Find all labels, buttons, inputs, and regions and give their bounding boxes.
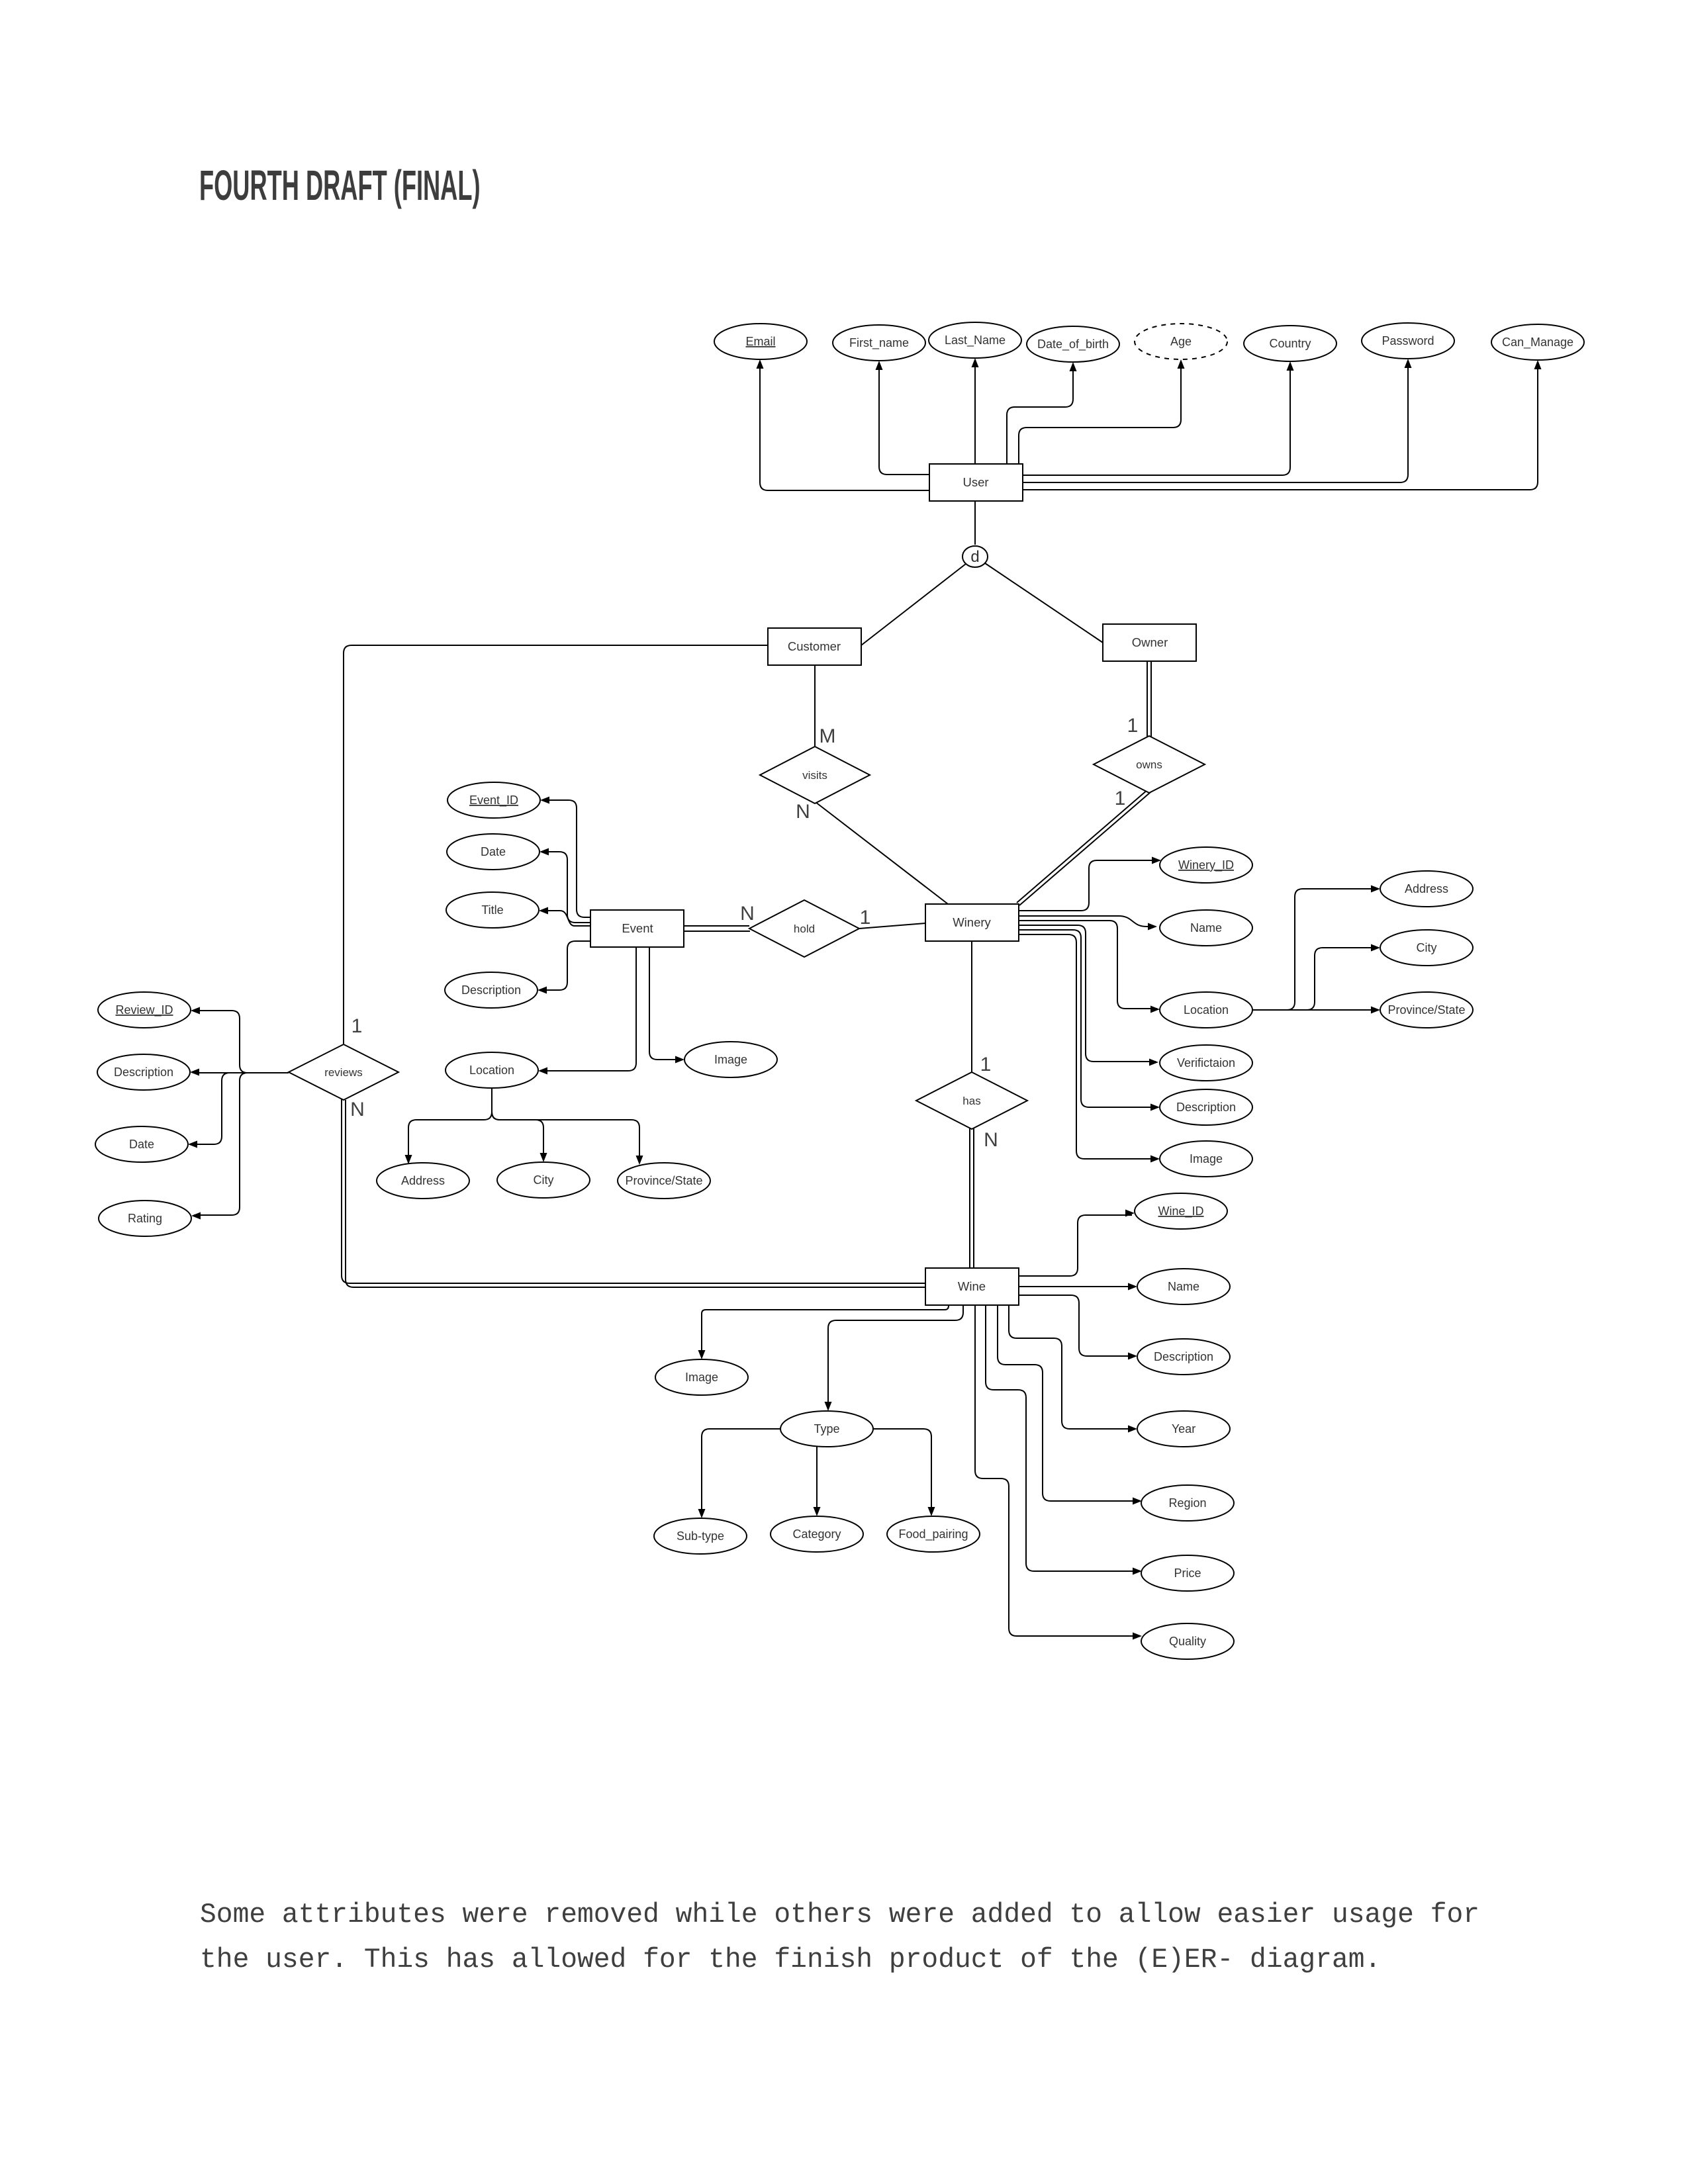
arrowhead Wine-Price bbox=[1133, 1568, 1142, 1575]
arrowhead Winery-Description bbox=[1150, 1104, 1160, 1111]
svg-text:1: 1 bbox=[352, 1015, 363, 1037]
svg-text:Description: Description bbox=[461, 983, 521, 997]
wire reviews-Rating bbox=[194, 1073, 289, 1215]
wire Wine-Name bbox=[1018, 1286, 1135, 1287]
wire Location-City bbox=[492, 1088, 543, 1158]
attribute ellipse WLocation bbox=[1160, 992, 1252, 1028]
attribute ellipse EDate bbox=[447, 834, 539, 870]
arrowhead User-First_name bbox=[876, 361, 883, 370]
wire User-Age bbox=[1019, 364, 1181, 464]
attribute ellipse Email bbox=[714, 324, 807, 359]
wire Winery-Verifictaion bbox=[1018, 925, 1156, 1062]
attribute ellipse Price bbox=[1141, 1555, 1234, 1591]
svg-text:Owner: Owner bbox=[1132, 635, 1168, 649]
attribute ellipse Verifictaion bbox=[1160, 1045, 1252, 1081]
svg-text:Image: Image bbox=[714, 1053, 747, 1066]
svg-text:Name: Name bbox=[1190, 921, 1222, 934]
svg-text:owns: owns bbox=[1136, 758, 1162, 771]
wire Customer-visits bbox=[814, 665, 816, 748]
arrowhead Winery-Location bbox=[1150, 1006, 1160, 1013]
arrowhead Event-Event_ID bbox=[540, 797, 549, 804]
arrowhead Wine-Description bbox=[1128, 1353, 1137, 1360]
wire Event-Location bbox=[541, 947, 636, 1071]
wire Winery-Description bbox=[1018, 930, 1157, 1107]
attribute ellipse EDescription bbox=[445, 972, 538, 1008]
wire Owner-owns (double line) bbox=[1147, 661, 1148, 740]
entity Wine bbox=[925, 1268, 1019, 1305]
entity Customer bbox=[768, 628, 861, 665]
attribute ellipse Can_Manage bbox=[1491, 324, 1584, 360]
svg-text:Rating: Rating bbox=[128, 1212, 162, 1225]
wire Customer-reviews bbox=[344, 645, 769, 1044]
wire Event-Description bbox=[540, 941, 591, 990]
wire Wine-Year bbox=[1009, 1305, 1135, 1429]
attribute ellipse WDescription bbox=[1160, 1089, 1252, 1125]
wire reviews-Wine (double line) bbox=[342, 1099, 925, 1283]
svg-text:N: N bbox=[350, 1099, 365, 1120]
arrowhead Event-Location bbox=[538, 1068, 547, 1075]
relationship visits bbox=[760, 747, 870, 803]
attribute ellipse Type bbox=[780, 1411, 873, 1447]
svg-text:Title: Title bbox=[481, 903, 503, 917]
wire User-First_name bbox=[879, 365, 929, 475]
attribute ellipse Rating bbox=[99, 1201, 191, 1236]
arrowhead reviews-Rating bbox=[191, 1212, 201, 1220]
svg-text:Region: Region bbox=[1168, 1496, 1206, 1510]
attribute ellipse Quality bbox=[1141, 1623, 1234, 1659]
wire Wine-Quality bbox=[975, 1305, 1139, 1636]
svg-text:Country: Country bbox=[1269, 337, 1311, 350]
svg-text:N: N bbox=[796, 801, 810, 823]
arrowhead User-Last_Name bbox=[972, 358, 979, 367]
attribute ellipse WiDescription bbox=[1137, 1339, 1230, 1375]
svg-text:Description: Description bbox=[1154, 1350, 1213, 1363]
arrowhead Wine-Image bbox=[698, 1350, 706, 1359]
attribute ellipse EAddress bbox=[377, 1163, 469, 1199]
arrowhead WLocation-ProvState bbox=[1371, 1007, 1380, 1014]
relationship reviews bbox=[289, 1044, 399, 1100]
wire Winery-Name bbox=[1018, 916, 1154, 927]
attribute ellipse Winery_ID bbox=[1160, 847, 1252, 883]
arrowhead Winery-Verifictaion bbox=[1149, 1059, 1158, 1066]
wire Wine-Image bbox=[702, 1305, 949, 1355]
arrowhead reviews-Date bbox=[188, 1141, 197, 1148]
arrowhead Location-Address bbox=[405, 1155, 412, 1164]
caption paragraph bbox=[200, 1893, 1479, 1983]
attribute ellipse WProvState bbox=[1380, 992, 1473, 1028]
wire reviews-Description bbox=[193, 1072, 289, 1073]
svg-text:Winery: Winery bbox=[953, 915, 991, 929]
wire Wine-Type bbox=[828, 1305, 963, 1406]
attribute ellipse EProvState bbox=[618, 1163, 710, 1199]
svg-text:Description: Description bbox=[1176, 1101, 1236, 1114]
wire d-Owner bbox=[985, 563, 1103, 643]
attribute ellipse WAddress bbox=[1380, 871, 1473, 907]
svg-text:Description: Description bbox=[114, 1066, 173, 1079]
wire Winery-has bbox=[971, 941, 972, 1073]
attribute ellipse WiName bbox=[1137, 1269, 1230, 1304]
wire Wine-Price bbox=[986, 1305, 1139, 1571]
arrowhead Wine-Quality bbox=[1133, 1633, 1142, 1640]
svg-text:Address: Address bbox=[1405, 882, 1448, 895]
wire Type-Subtype bbox=[702, 1429, 780, 1514]
attribute ellipse ECity bbox=[497, 1162, 590, 1198]
arrowhead Wine-Region bbox=[1133, 1498, 1142, 1505]
attribute ellipse Category bbox=[771, 1516, 863, 1552]
arrowhead Event-Description bbox=[538, 987, 547, 994]
arrowhead User-Date_of_birth bbox=[1070, 362, 1077, 371]
attribute ellipse First_name bbox=[833, 325, 925, 361]
svg-text:reviews: reviews bbox=[324, 1066, 363, 1079]
wire Event-Image bbox=[649, 947, 682, 1060]
wire Wine-Wine_ID bbox=[1018, 1215, 1132, 1276]
wire Wine-Description bbox=[1018, 1295, 1135, 1356]
attribute ellipse Age bbox=[1135, 324, 1227, 359]
svg-text:Date_of_birth: Date_of_birth bbox=[1037, 338, 1109, 351]
arrowhead Wine-Year bbox=[1128, 1426, 1137, 1433]
attribute ellipse RDate bbox=[95, 1126, 188, 1162]
arrowhead Wine-Name bbox=[1128, 1283, 1137, 1291]
svg-text:City: City bbox=[1417, 941, 1437, 954]
wire WLocation-City bbox=[1252, 948, 1378, 1010]
entity Owner bbox=[1103, 624, 1196, 661]
attribute ellipse WName bbox=[1160, 910, 1252, 946]
svg-text:Quality: Quality bbox=[1169, 1635, 1206, 1648]
attribute ellipse Wine_ID bbox=[1135, 1193, 1227, 1229]
wire reviews-Date bbox=[191, 1073, 289, 1144]
entity User bbox=[929, 464, 1023, 501]
svg-text:Wine: Wine bbox=[958, 1279, 986, 1293]
wire owns-Winery (double line) bbox=[1017, 790, 1148, 903]
svg-text:1: 1 bbox=[1127, 715, 1139, 737]
relationship hold bbox=[749, 900, 859, 957]
svg-text:Date: Date bbox=[129, 1138, 154, 1151]
arrowhead Location-ProvState bbox=[636, 1156, 643, 1165]
svg-text:N: N bbox=[740, 903, 755, 925]
wire Type-Food_pairing bbox=[873, 1429, 931, 1512]
svg-text:Province/State: Province/State bbox=[625, 1174, 702, 1187]
wire User-Password bbox=[1023, 363, 1408, 482]
wire User-Can_Manage bbox=[1023, 365, 1538, 490]
relationship has bbox=[916, 1072, 1027, 1129]
svg-text:Image: Image bbox=[1190, 1152, 1223, 1165]
entity Winery bbox=[925, 904, 1019, 941]
svg-text:Wine_ID: Wine_ID bbox=[1158, 1205, 1203, 1218]
svg-text:Customer: Customer bbox=[788, 639, 841, 653]
attribute ellipse Year bbox=[1137, 1411, 1230, 1447]
attribute ellipse Event_ID bbox=[447, 782, 540, 818]
wire visits-Winery bbox=[816, 802, 948, 904]
attribute ellipse Region bbox=[1141, 1485, 1234, 1521]
wire Event-Event_ID bbox=[543, 800, 591, 917]
svg-text:1: 1 bbox=[860, 907, 871, 929]
svg-text:1: 1 bbox=[1115, 788, 1126, 809]
entity Event bbox=[590, 910, 684, 947]
attribute ellipse Review_ID bbox=[98, 992, 191, 1028]
svg-text:Food_pairing: Food_pairing bbox=[898, 1527, 968, 1541]
wire Winery-Image bbox=[1018, 934, 1157, 1159]
arrowhead Wine-Type bbox=[825, 1402, 832, 1411]
svg-text:visits: visits bbox=[802, 769, 827, 782]
attribute ellipse WImage bbox=[1160, 1141, 1252, 1177]
svg-text:Type: Type bbox=[814, 1422, 839, 1435]
svg-text:Name: Name bbox=[1168, 1280, 1199, 1293]
wire Location-Address bbox=[408, 1088, 492, 1160]
arrowhead Type-Category bbox=[814, 1507, 821, 1516]
arrowhead Event-Date bbox=[539, 848, 549, 856]
svg-text:Category: Category bbox=[792, 1527, 841, 1541]
arrowhead WLocation-City bbox=[1371, 944, 1380, 952]
wire User-Country bbox=[1023, 366, 1290, 475]
svg-text:Location: Location bbox=[469, 1064, 514, 1077]
svg-text:hold: hold bbox=[794, 923, 815, 935]
arrowhead Location-City bbox=[540, 1153, 547, 1162]
arrowhead Wine-Wine_ID bbox=[1125, 1210, 1135, 1217]
arrowhead User-Country bbox=[1287, 361, 1294, 371]
svg-text:d: d bbox=[970, 548, 979, 566]
svg-text:Password: Password bbox=[1382, 334, 1434, 347]
page title bbox=[199, 161, 481, 210]
svg-text:User: User bbox=[962, 475, 988, 489]
attribute ellipse WiImage bbox=[655, 1359, 748, 1395]
arrowhead User-Email bbox=[757, 359, 764, 369]
svg-text:Verifictaion: Verifictaion bbox=[1177, 1056, 1235, 1069]
arrowhead WLocation-Address bbox=[1371, 886, 1380, 893]
svg-text:has: has bbox=[962, 1095, 980, 1107]
attribute ellipse ELocation bbox=[445, 1052, 538, 1088]
wire WLocation-ProvState bbox=[1252, 1009, 1378, 1011]
relationship owns bbox=[1094, 736, 1205, 793]
wire has-Wine (double line) bbox=[969, 1127, 970, 1268]
svg-text:Review_ID: Review_ID bbox=[115, 1003, 173, 1017]
wire Event-hold (double line) bbox=[684, 925, 749, 927]
arrowhead Winery-Winery_ID bbox=[1152, 857, 1161, 864]
svg-text:Can_Manage: Can_Manage bbox=[1502, 336, 1573, 349]
attribute ellipse RDescription bbox=[97, 1054, 190, 1090]
attribute ellipse Date_of_birth bbox=[1027, 326, 1119, 362]
arrowhead User-Password bbox=[1405, 359, 1412, 368]
arrowhead User-Age bbox=[1178, 359, 1185, 369]
svg-text:Province/State: Province/State bbox=[1387, 1003, 1465, 1017]
wire Winery-Winery_ID bbox=[1018, 860, 1158, 911]
arrowhead Type-Subtype bbox=[698, 1509, 706, 1518]
wire User-Email bbox=[760, 364, 929, 490]
attribute ellipse EImage bbox=[684, 1042, 777, 1077]
svg-text:Last_Name: Last_Name bbox=[945, 334, 1006, 347]
attribute ellipse Subtype bbox=[654, 1518, 747, 1554]
svg-text:First_name: First_name bbox=[849, 336, 909, 350]
ISA disjoint circle d bbox=[962, 546, 988, 567]
arrowhead Event-Title bbox=[539, 907, 548, 915]
wire User-Last_Name bbox=[974, 363, 976, 464]
wire d-Customer bbox=[861, 564, 966, 645]
svg-text:Address: Address bbox=[401, 1174, 445, 1187]
wire Event-Date bbox=[542, 852, 591, 923]
attribute ellipse Food_pairing bbox=[887, 1516, 980, 1552]
wire Winery-Location bbox=[1018, 921, 1157, 1009]
wire User-d bbox=[974, 501, 976, 545]
arrowhead Type-Food_pairing bbox=[928, 1507, 935, 1516]
wire Type-Category bbox=[816, 1446, 818, 1512]
attribute ellipse WCity bbox=[1380, 930, 1473, 966]
attribute ellipse Country bbox=[1244, 326, 1336, 361]
svg-text:Event: Event bbox=[622, 921, 653, 935]
wire Location-ProvState bbox=[492, 1088, 639, 1160]
attribute ellipse Title bbox=[446, 892, 539, 928]
svg-text:Age: Age bbox=[1170, 335, 1192, 348]
svg-text:Price: Price bbox=[1174, 1567, 1201, 1580]
svg-text:Sub-type: Sub-type bbox=[677, 1529, 724, 1543]
attribute ellipse Last_Name bbox=[929, 322, 1021, 358]
wire hold-Winery bbox=[859, 923, 925, 929]
svg-text:Winery_ID: Winery_ID bbox=[1178, 858, 1234, 872]
svg-text:Location: Location bbox=[1184, 1003, 1229, 1017]
svg-text:Image: Image bbox=[685, 1371, 718, 1384]
arrowhead reviews-Review_ID bbox=[191, 1007, 200, 1015]
svg-text:1: 1 bbox=[980, 1054, 992, 1075]
arrowhead reviews-Description bbox=[190, 1069, 199, 1076]
wire Wine-Region bbox=[998, 1305, 1139, 1501]
svg-text:Event_ID: Event_ID bbox=[469, 794, 518, 807]
arrowhead User-Can_Manage bbox=[1534, 360, 1542, 369]
wire WLocation-Address bbox=[1252, 889, 1378, 1010]
arrowhead Event-Image bbox=[675, 1056, 684, 1064]
arrowhead Winery-Image bbox=[1150, 1156, 1160, 1163]
wire User-Date_of_birth bbox=[1007, 367, 1073, 464]
svg-text:Year: Year bbox=[1172, 1422, 1196, 1435]
wire Event-Title bbox=[544, 911, 591, 926]
svg-text:Date: Date bbox=[481, 845, 506, 858]
wire reviews-Review_ID bbox=[193, 1011, 289, 1073]
svg-text:Email: Email bbox=[745, 335, 775, 348]
svg-text:City: City bbox=[534, 1173, 554, 1187]
svg-text:M: M bbox=[820, 725, 836, 747]
attribute ellipse Password bbox=[1362, 323, 1454, 359]
svg-text:N: N bbox=[984, 1129, 998, 1151]
arrowhead Winery-Name bbox=[1148, 923, 1157, 931]
